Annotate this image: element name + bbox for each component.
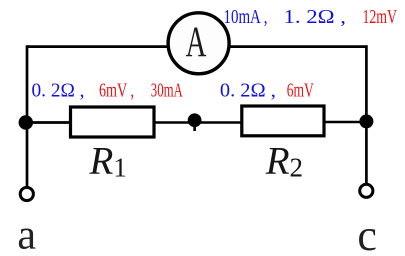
svg-text:R2: R2: [265, 140, 303, 183]
svg-text:10mA ,: 10mA ,: [224, 6, 268, 28]
svg-text:1. 2Ω ,: 1. 2Ω ,: [284, 6, 347, 28]
svg-text:0. 2Ω ,: 0. 2Ω ,: [32, 80, 85, 102]
svg-text:A: A: [186, 17, 207, 65]
svg-text:R1: R1: [89, 140, 127, 183]
wire top-left horizontal: [27, 45, 167, 48]
terminal c circle: [360, 184, 373, 197]
terminal a circle: [20, 187, 33, 200]
wire top-right horizontal: [230, 45, 366, 48]
svg-text:c: c: [357, 211, 377, 256]
svg-text:6mV ,: 6mV ,: [99, 80, 134, 102]
node junction middle stub: [193, 126, 196, 131]
node junction right: [359, 114, 373, 128]
svg-text:12mV: 12mV: [363, 6, 398, 28]
node junction left: [19, 115, 33, 129]
wire right vertical: [365, 45, 368, 183]
svg-text:30mA: 30mA: [151, 80, 183, 102]
resistor R1 body: [71, 107, 155, 137]
wire left vertical: [26, 45, 29, 187]
svg-text:6mV: 6mV: [287, 80, 314, 102]
wire R1 to R2 through middle node: [154, 121, 242, 124]
ammeter U1 circle: [168, 13, 229, 74]
node junction middle: [188, 113, 202, 127]
svg-text:a: a: [17, 213, 36, 256]
resistor R2 body: [242, 106, 324, 136]
wire main row left segment: [27, 121, 71, 124]
wire R2 to right node: [324, 121, 366, 124]
svg-text:0. 2Ω ,: 0. 2Ω ,: [220, 80, 276, 102]
